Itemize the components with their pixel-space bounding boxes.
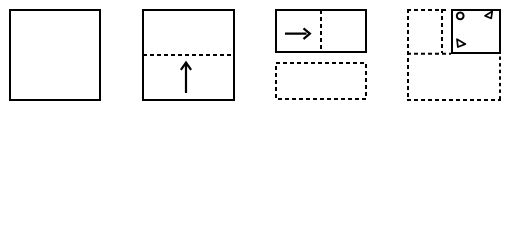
panel B: dashed horizontal split line	[143, 54, 234, 56]
panel C: dashed bottom pane outline	[276, 63, 366, 99]
panel C: dashed vertical split line	[320, 10, 322, 52]
panel D: dashed outer left edge	[407, 9, 409, 101]
panel C: right arrow shaft	[285, 32, 307, 34]
panel B: up arrow shaft	[185, 64, 187, 93]
panel D: right-pointing triangle glyph	[457, 39, 465, 47]
panel B: window outline	[143, 10, 234, 100]
panel D: left-pointing triangle glyph	[485, 11, 492, 18]
panel D: dashed middle horizontal line	[407, 53, 451, 55]
panel D: dashed outer top edge (left part)	[407, 9, 447, 11]
panel C: solid top pane outline	[276, 10, 366, 52]
panel A: plain window outline	[10, 10, 100, 100]
panel B: up arrow head	[181, 63, 191, 70]
panel D: dashed outer bottom edge	[407, 99, 501, 101]
panel C: right arrow head	[304, 28, 310, 39]
panel D: solid top-right pane outline	[452, 10, 500, 53]
panel D: small circle glyph	[457, 13, 464, 20]
panel D: dashed vertical divider (top half)	[441, 9, 443, 53]
panel D: dashed outer right edge (lower part)	[499, 57, 501, 102]
